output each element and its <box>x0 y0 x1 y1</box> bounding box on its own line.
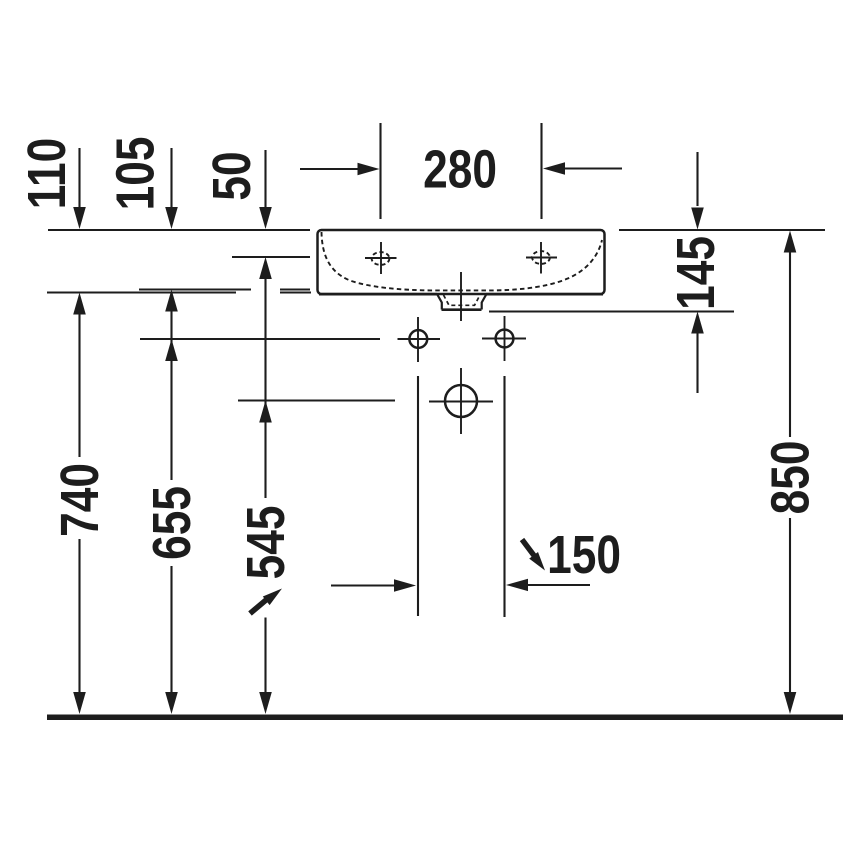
svg-text:545: 545 <box>236 506 296 580</box>
arrowhead 50 down <box>259 207 272 229</box>
fixing hole left <box>398 316 527 434</box>
svg-text:50: 50 <box>202 151 262 200</box>
arrowhead 145 down <box>691 208 704 230</box>
arrowhead 280 left (points right) <box>358 163 380 176</box>
dimension 110 arrow line top <box>78 148 80 208</box>
wire 655 level line <box>140 338 380 340</box>
arrowhead 150 left (points right) <box>394 579 416 592</box>
dimension 150 extension line left <box>417 376 419 616</box>
wire 145 bottom level line <box>489 310 734 312</box>
arrowhead 110/740 up <box>73 293 86 315</box>
dimension 850 line <box>789 251 791 437</box>
wire rim reference line left <box>48 229 310 231</box>
drain fitting inner dashed <box>444 295 481 305</box>
wire 105 level line <box>139 288 251 290</box>
arrowhead 105 down <box>165 207 178 229</box>
dimension 150 arrow line right <box>525 584 590 586</box>
basin inner bowl curve (dashed) <box>322 232 603 290</box>
arrowheads <box>73 162 796 714</box>
wire 110 level line right stub <box>280 291 311 293</box>
svg-text:850: 850 <box>760 441 820 515</box>
arrowhead 150 right (points left) <box>506 579 528 591</box>
svg-text:655: 655 <box>142 486 202 560</box>
tap hole left (dashed circle) <box>365 242 557 274</box>
svg-text:110: 110 <box>17 138 77 209</box>
arrowhead 50 up <box>259 257 272 279</box>
arrowhead 145 up <box>691 312 704 334</box>
leader arrow for 150 (points SE) <box>522 540 545 571</box>
wire rim reference line right <box>619 229 825 231</box>
dimension 280 arrow line right <box>562 167 622 169</box>
dimension 105 arrow line top <box>170 148 172 208</box>
drain fitting outline <box>437 295 486 310</box>
dimension 655 line <box>170 310 172 480</box>
leader arrow for 545 (points NE) <box>250 589 282 614</box>
arrowhead 110 down <box>73 207 86 229</box>
svg-text:280: 280 <box>423 139 497 199</box>
fixing hole right <box>496 330 514 348</box>
arrowhead 655 up <box>165 339 178 361</box>
arrowhead 545 up <box>259 401 272 423</box>
wire 110 level line <box>47 291 236 293</box>
dimension 545 line <box>264 278 266 498</box>
wire 545 level line <box>238 399 395 401</box>
arrowhead 655 floor <box>165 692 178 714</box>
drain hole circle <box>445 385 477 417</box>
dimension 145 arrow line bottom <box>696 332 698 393</box>
wire tap-hole level line (50 dim) <box>232 256 310 258</box>
svg-text:740: 740 <box>50 463 110 537</box>
basin outline <box>318 230 605 294</box>
dimension 145 arrow line top <box>696 152 698 206</box>
wire 105 level line right stub <box>280 288 310 290</box>
dimension 280 arrow line left <box>300 168 360 170</box>
dimension 150 extension line right <box>503 376 505 617</box>
dimension 150 arrow line left <box>331 584 397 586</box>
dimension 280 extension line right <box>540 123 542 219</box>
svg-text:105: 105 <box>105 137 165 211</box>
basin bottom edge thick <box>319 293 437 296</box>
arrowhead 740 floor <box>73 692 86 714</box>
dimension 50 arrow line top <box>264 150 266 208</box>
arrowhead 850 floor <box>784 692 797 714</box>
arrowhead 850 up <box>784 231 797 253</box>
floor line <box>47 715 843 721</box>
arrowhead 545 floor <box>259 692 272 714</box>
svg-text:150: 150 <box>547 525 621 585</box>
drain centerline <box>460 272 462 321</box>
dimension 280 extension line left <box>379 123 381 219</box>
arrowhead 105 up <box>165 290 178 312</box>
tap hole right (dashed circle) <box>532 251 550 264</box>
arrowhead 280 right (points left) <box>543 162 565 175</box>
dimension 740 line <box>78 313 80 457</box>
svg-text:145: 145 <box>666 236 726 310</box>
